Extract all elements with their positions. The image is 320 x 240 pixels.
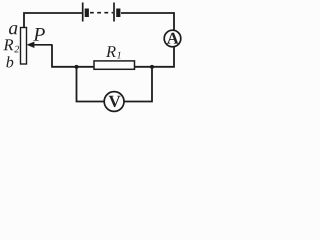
wire dashed between battery cells [90,12,113,14]
ammeter A circle [164,30,181,47]
resistor R1 box [94,61,135,69]
rheostat slider arrowhead [26,42,34,48]
label a [9,25,17,34]
ammeter letter A [167,33,179,44]
wire slider P elbow down to main wire and right to R1 [52,45,94,67]
junction dot left (voltmeter tap) [75,65,79,69]
junction dot right (voltmeter tap) [150,65,154,69]
wire ammeter bottom lead down to main wire [135,47,175,67]
rheostat slider arrow shaft [34,44,53,46]
label b [6,56,13,67]
voltmeter V circle [104,92,124,112]
voltmeter letter V [109,96,121,107]
wire top-right from battery to ammeter [121,13,174,30]
label R2 - R [3,39,13,50]
label R2 - subscript 2 [14,46,19,53]
battery cell 1 long plate [82,3,84,22]
label R1 - R [106,46,116,57]
battery cell 2 long plate [113,3,115,22]
wire top-left from rheostat terminal a up and right to battery [24,13,82,28]
label P [33,28,45,41]
label R1 - subscript 1 [117,52,121,59]
battery cell 1 short plate [85,9,89,18]
wire voltmeter branch left: junction down and right to V [77,67,105,102]
wire voltmeter branch right: V to junction under R1 right [124,67,152,102]
rheostat R2 body [21,28,27,65]
battery cell 2 short plate [116,9,120,18]
